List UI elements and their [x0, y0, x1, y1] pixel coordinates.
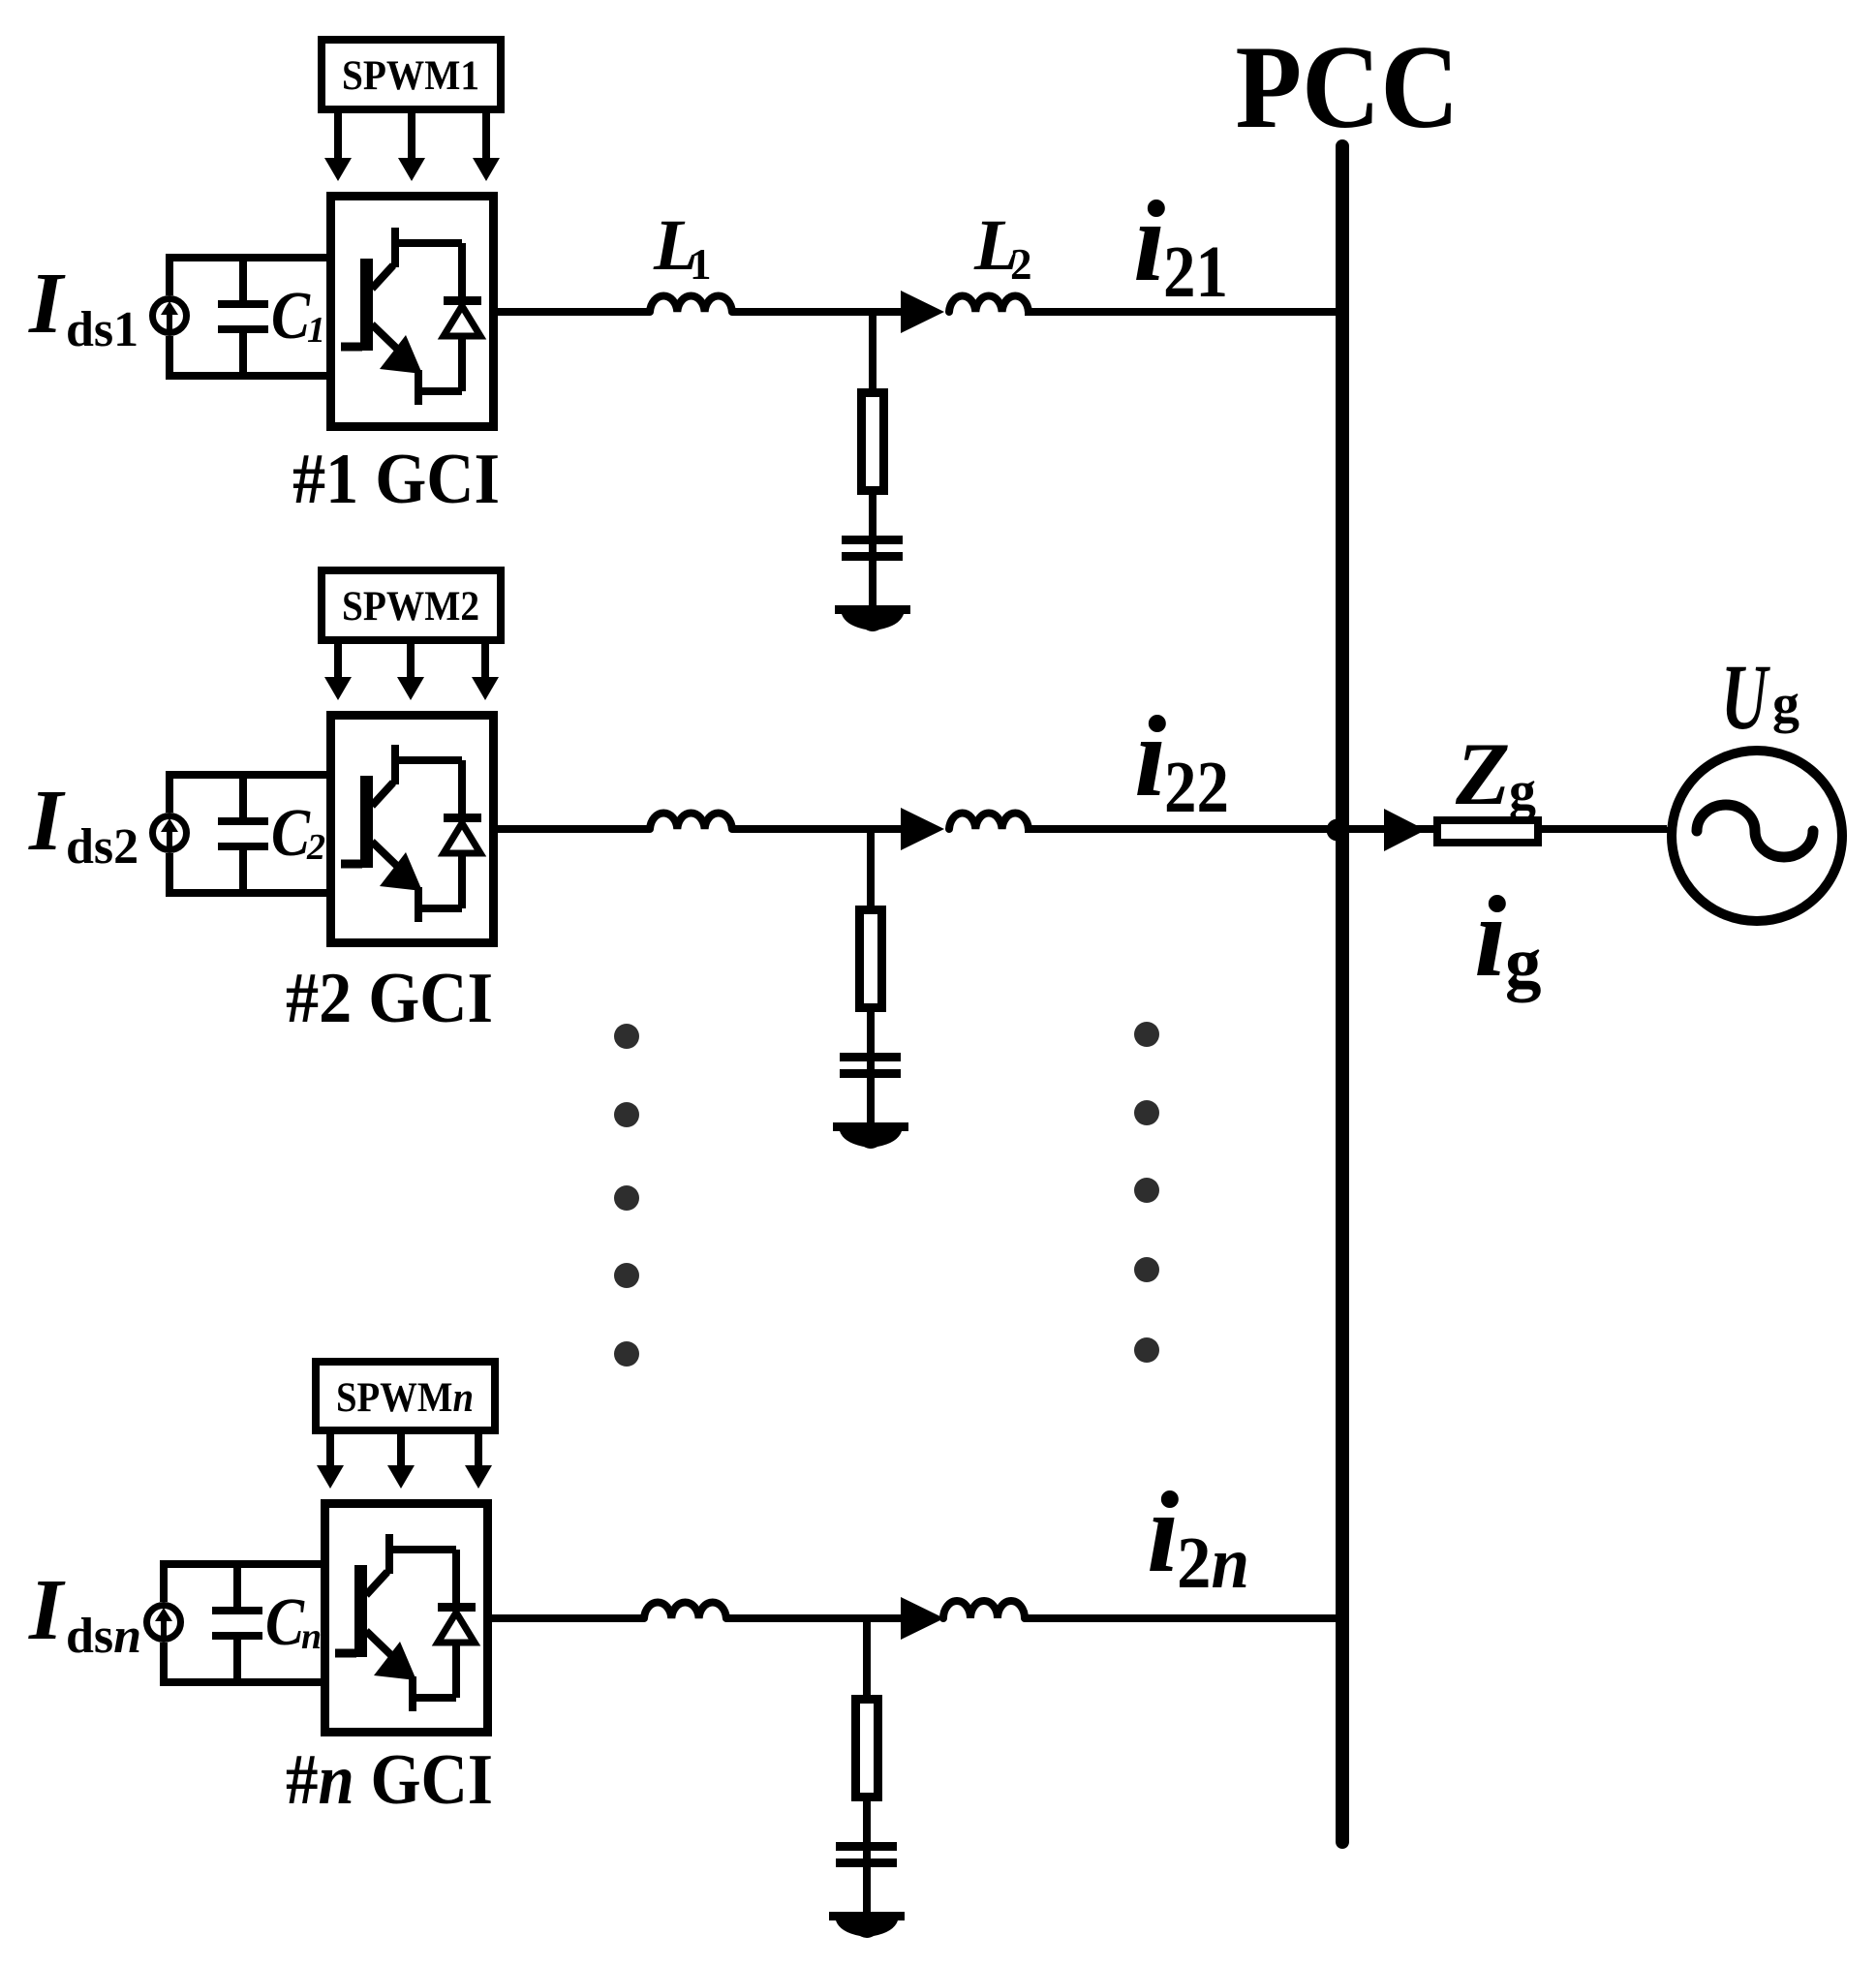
- transistor Q1 (IGBT): [341, 228, 422, 405]
- wire DC-link bottom (row 2): [166, 889, 330, 897]
- svg-text:I: I: [28, 256, 66, 352]
- svg-text:I: I: [28, 773, 66, 869]
- SPWM1 modulator box: [322, 40, 501, 109]
- filter capacitor Cfn: [836, 1842, 897, 1867]
- svg-text:n: n: [301, 1616, 322, 1657]
- svg-text:SPWM1: SPWM1: [342, 53, 479, 99]
- wire resistor to capacitor (row 2): [867, 1012, 875, 1126]
- node PCC bus bar: [1336, 146, 1349, 1842]
- svg-text:ds2: ds2: [66, 819, 138, 875]
- svg-text:1: 1: [307, 310, 325, 351]
- SPWMn gate signal arrows: [317, 1434, 492, 1489]
- svg-text:i: i: [1133, 176, 1165, 305]
- svg-text:i: i: [1134, 691, 1166, 820]
- transistor Q2 (IGBT): [341, 745, 422, 922]
- wire L2 to PCC bus (row 1): [1025, 308, 1339, 316]
- junction dot at PCC (row 2): [1327, 819, 1349, 842]
- filter capacitor Cf2: [840, 1053, 901, 1078]
- wire L1 to node (row n): [726, 1614, 905, 1622]
- inductor L2 (row n): [943, 1601, 1025, 1618]
- inverter bridge #2 GCI box: [331, 716, 494, 943]
- wire L2 to PCC bus (row n): [1025, 1614, 1339, 1622]
- current arrow into L2 (row n): [901, 1597, 944, 1640]
- ground (row n): [829, 1912, 905, 1938]
- capacitor C1: [218, 258, 268, 376]
- label i2n (injected current row n): [1147, 1467, 1249, 1604]
- SPWM2 gate signal arrows: [324, 644, 499, 700]
- ellipsis dots (more GCIs, left column): [614, 1024, 639, 1367]
- wire inverter output to L1 (row n): [488, 1614, 644, 1622]
- wire DC-link left (row 2): [166, 771, 173, 897]
- svg-text:#1 GCI: #1 GCI: [292, 440, 500, 519]
- diode D2 (anti-parallel): [391, 760, 481, 908]
- svg-text:#n GCI: #n GCI: [286, 1740, 493, 1820]
- wire inverter output to L1 (row 1): [494, 308, 650, 316]
- wire resistor to capacitor (row 1): [869, 495, 876, 609]
- wire DC-link bottom (row 1): [166, 372, 330, 380]
- diode D1 (anti-parallel): [391, 243, 481, 391]
- svg-text:ds1: ds1: [66, 302, 138, 357]
- svg-text:22: 22: [1164, 747, 1229, 828]
- wire L1 to node (row 1): [732, 308, 905, 316]
- capacitor Cn: [212, 1564, 262, 1682]
- grid current arrow ig: [1384, 809, 1426, 851]
- inductor L2 (row 2): [949, 814, 1029, 829]
- svg-text:#2 GCI: #2 GCI: [286, 959, 493, 1038]
- svg-text:i: i: [1147, 1467, 1179, 1596]
- wire DC-link top (row 2): [166, 771, 330, 779]
- damping resistor Rd1: [862, 393, 884, 491]
- SPWMn modulator box: [316, 1362, 495, 1430]
- svg-text:dsn: dsn: [66, 1609, 141, 1664]
- wire DC-link left (row 1): [166, 254, 173, 380]
- svg-text:Z: Z: [1455, 724, 1510, 823]
- label Idsn: [28, 1562, 141, 1664]
- inductor L1 (row 1): [650, 296, 732, 312]
- SPWM1 gate signal arrows: [324, 113, 500, 181]
- damping resistor Rd2: [860, 910, 882, 1008]
- diode Dn (anti-parallel): [385, 1550, 476, 1698]
- wire L1 to node (row 2): [732, 825, 905, 833]
- wire DC-link bottom (row n): [160, 1678, 324, 1686]
- wire filter shunt branch (row 2): [867, 829, 875, 909]
- label ig: [1474, 872, 1542, 1003]
- svg-text:2n: 2n: [1177, 1522, 1249, 1604]
- svg-text:SPWM2: SPWM2: [342, 584, 479, 630]
- label i22 (injected current row 2): [1134, 691, 1229, 828]
- current arrow into L2 (row 1): [901, 291, 944, 333]
- svg-text:PCC: PCC: [1236, 20, 1460, 153]
- capacitor C2: [218, 775, 268, 893]
- wire L2 to PCC bus (row 2): [1025, 825, 1667, 833]
- label C2: [271, 796, 325, 871]
- label Cn: [265, 1585, 322, 1660]
- inductor L1 (row n): [644, 1603, 726, 1618]
- label Ids1: [28, 256, 138, 357]
- current source Ids2: [153, 816, 187, 850]
- svg-text:SPWMn: SPWMn: [336, 1375, 474, 1421]
- current source Idsn: [147, 1606, 181, 1640]
- wire resistor to capacitor (row n): [863, 1801, 871, 1916]
- inductor L2 (row 1): [949, 296, 1029, 312]
- ground (row 2): [833, 1122, 908, 1149]
- svg-text:C: C: [271, 279, 311, 353]
- damping resistor Rdn: [856, 1700, 878, 1797]
- filter capacitor Cf1: [842, 536, 903, 561]
- wire filter shunt branch (row n): [863, 1618, 871, 1699]
- svg-text:2: 2: [1010, 240, 1032, 289]
- wire Zg to grid source: [1542, 827, 1676, 833]
- transistor Qn (IGBT): [335, 1534, 416, 1711]
- svg-text:C: C: [265, 1585, 305, 1660]
- svg-text:g: g: [1505, 923, 1542, 1003]
- wire DC-link top (row n): [160, 1560, 324, 1568]
- svg-text:1: 1: [690, 240, 712, 289]
- label i21 (injected current row 1): [1133, 176, 1228, 313]
- current source Ids1: [153, 299, 187, 333]
- svg-text:i: i: [1474, 872, 1506, 1000]
- svg-text:21: 21: [1163, 231, 1228, 313]
- svg-text:C: C: [271, 796, 311, 871]
- inverter bridge #1 GCI box: [331, 197, 494, 427]
- current arrow into L2 (row 2): [901, 808, 944, 850]
- svg-text:g: g: [1772, 674, 1799, 734]
- ellipsis dots (more feeders, right column): [1134, 1022, 1159, 1363]
- wire inverter output to L1 (row 2): [494, 825, 650, 833]
- wire DC-link top (row 1): [166, 254, 330, 261]
- ground (row 1): [835, 605, 910, 631]
- wire filter shunt branch (row 1): [869, 312, 876, 392]
- inductor L1 (row 2): [650, 814, 732, 829]
- wire DC-link left (row n): [160, 1560, 168, 1686]
- label Zg: [1455, 724, 1536, 823]
- label Ids2: [28, 773, 138, 875]
- inverter bridge #n GCI box: [325, 1504, 488, 1733]
- grid impedance Zg: [1437, 820, 1538, 843]
- label L2: [973, 205, 1032, 289]
- AC grid voltage source Ug: [1672, 751, 1842, 921]
- svg-text:U: U: [1721, 645, 1770, 749]
- svg-text:I: I: [28, 1562, 66, 1658]
- label L1: [653, 205, 712, 289]
- SPWM2 modulator box: [322, 570, 501, 640]
- label Ug: [1721, 645, 1799, 749]
- svg-text:2: 2: [306, 827, 325, 868]
- svg-text:g: g: [1509, 761, 1536, 821]
- label C1: [271, 279, 325, 353]
